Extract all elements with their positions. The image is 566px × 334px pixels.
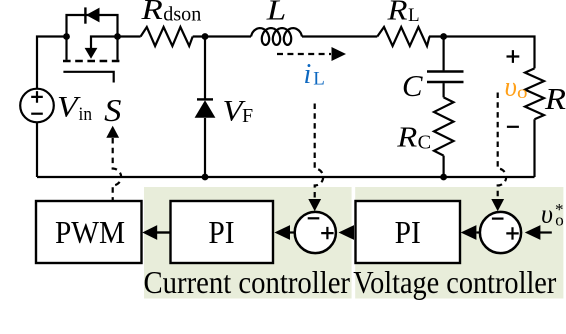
mosfet Q1 channel (dashed) [63,60,121,62]
summing junction current plus sign [321,227,333,239]
svg-text:i: i [304,59,312,90]
node drain dot [63,33,70,40]
wire R_dson to inductor [193,35,251,37]
mosfet Q1 body diode [85,7,99,23]
wire capacitor to R_C [443,83,445,97]
svg-text:o: o [555,210,564,229]
wire mosfet top loop [67,14,118,60]
PI current block [171,201,274,263]
wire top left [37,37,67,89]
svg-text:R: R [544,81,566,116]
PWM block [36,201,142,263]
wire mosfet drain branch [91,37,118,49]
svg-text:in: in [79,104,93,125]
node source dot [114,33,121,40]
summing junction voltage minus sign [492,218,504,220]
voltage source Vin [20,89,54,123]
wire right rail bottom [533,119,535,177]
svg-text:R: R [140,0,163,26]
svg-text:R: R [396,122,417,153]
mosfet Q1 bulk arrow [85,48,98,59]
svg-text:PWM: PWM [55,215,125,250]
svg-text:L: L [408,5,420,26]
svg-text:Current controller: Current controller [144,265,351,300]
arrow summing to PI voltage [476,231,479,233]
resistor R_dson [118,27,193,46]
mosfet Q1 gate [63,72,113,83]
wire left rail bottom [36,123,38,178]
wire inductor to R_L [302,35,377,37]
svg-text:dson: dson [163,5,201,26]
resistor R_L [377,27,429,46]
node after R_dson [202,33,209,40]
label plus output [507,50,520,63]
arrow summing to PI current [288,231,295,233]
wire diode branch bottom [204,118,206,177]
voltage controller background [355,187,563,299]
PI voltage block [356,201,461,263]
wire capacitor branch top [443,37,445,71]
dashed i_L measurement line [315,104,324,200]
wire R_L to top right corner [429,37,535,69]
wire diode branch top [204,37,206,99]
current controller background [144,187,352,299]
diode D1 [195,99,216,117]
svg-text:L: L [313,69,325,90]
svg-text:υ: υ [541,200,553,229]
capacitor C [427,72,464,83]
svg-text:o: o [517,82,528,102]
svg-text:S: S [104,92,121,128]
svg-text:υ: υ [505,71,517,101]
arrow v_o* to summing voltage [540,231,552,233]
svg-text:C: C [402,68,423,103]
summing junction current minus sign [308,217,320,219]
node bottom capacitor [440,174,447,181]
resistor R_C [434,97,454,155]
svg-text:Voltage controller: Voltage controller [353,265,556,300]
svg-text:PI: PI [395,215,421,250]
arrow PI to PWM [156,231,171,233]
dashed v_o measurement line [498,93,507,200]
summing junction voltage [480,212,521,253]
node bottom diode [202,174,209,181]
svg-text:C: C [418,133,432,154]
summing junction voltage plus sign [506,227,518,239]
node top capacitor [440,33,447,40]
summing junction current [295,212,336,253]
svg-text:PI: PI [208,215,234,250]
arrow i_L (dashed measurement) [277,53,331,55]
wire bottom rail [37,176,535,178]
svg-text:L: L [266,0,287,26]
svg-text:R: R [386,0,407,27]
arrow voltage PI to summing [339,225,355,240]
wire R_C to bottom rail [443,156,445,177]
dashed gate drive line S [113,138,122,201]
gate drive arrowhead [106,126,119,138]
svg-text:F: F [242,105,253,127]
resistor R load [525,68,544,119]
label minus output [507,126,519,128]
inductor L [251,28,302,45]
